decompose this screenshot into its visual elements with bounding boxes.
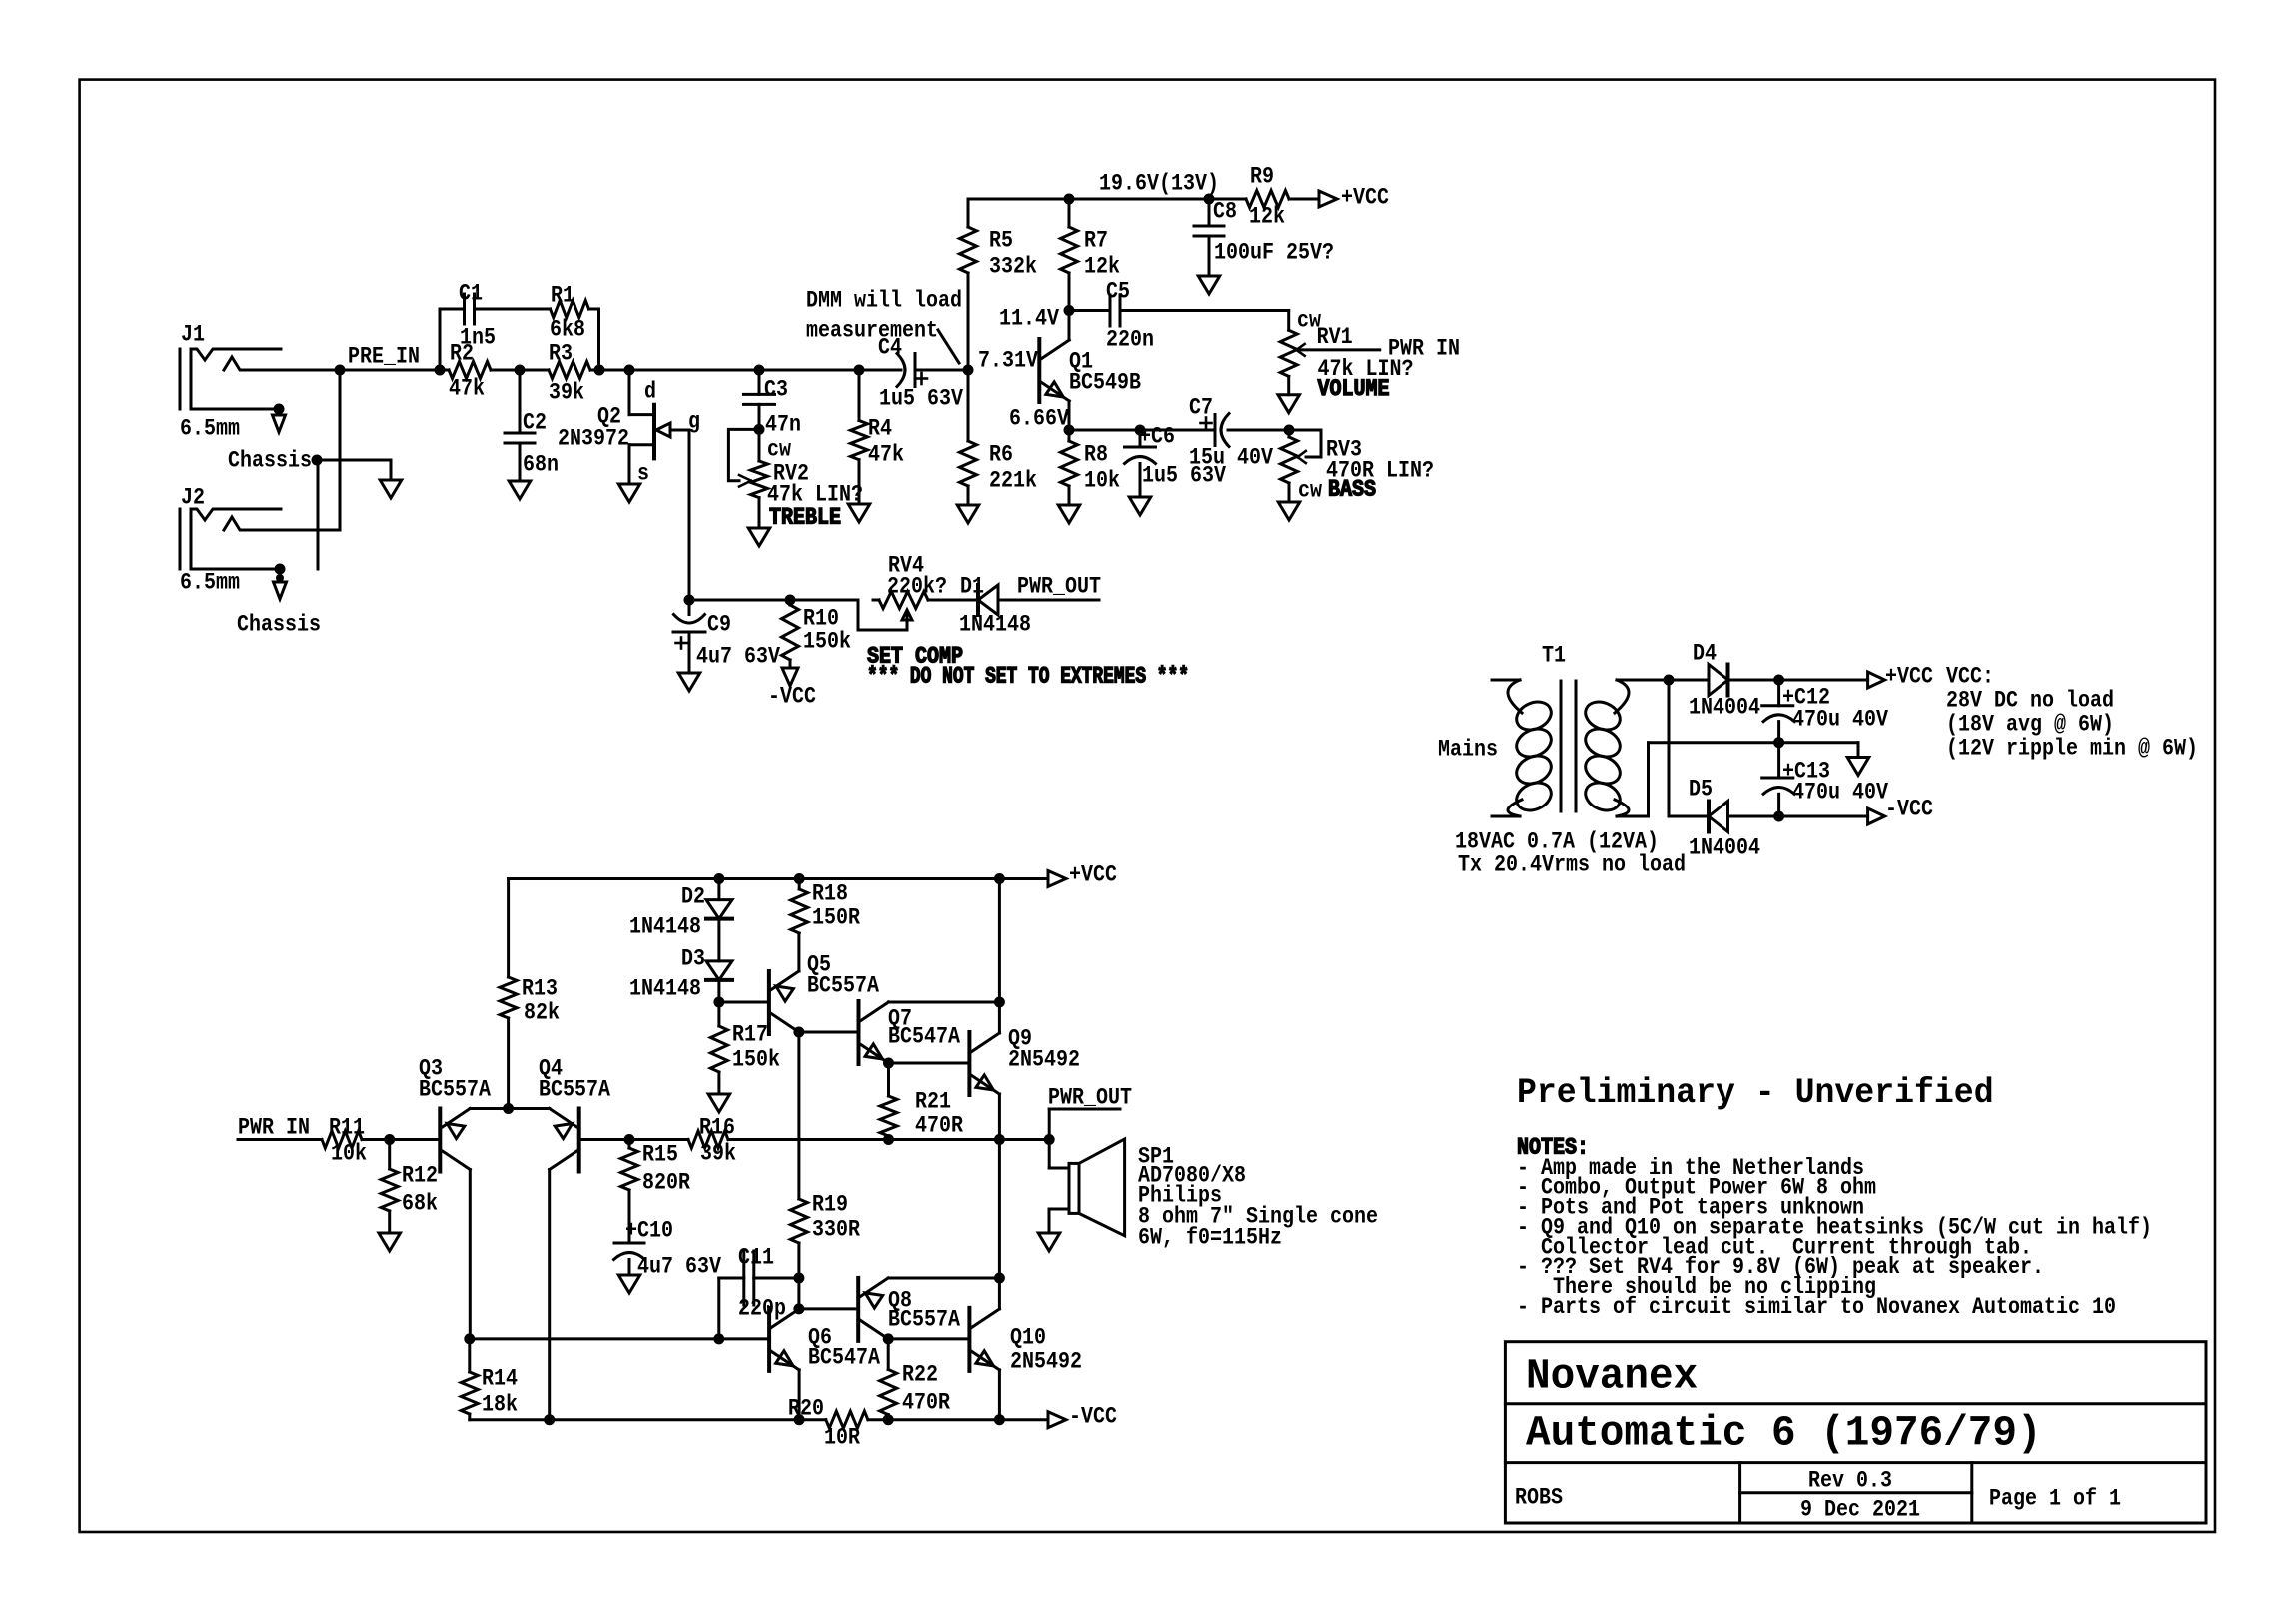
svg-text:100uF 25V?: 100uF 25V? [1214,240,1334,266]
svg-text:10k: 10k [331,1141,367,1167]
svg-text:470u 40V: 470u 40V [1792,707,1888,733]
svg-text:*** DO NOT SET TO EXTREMES ***: *** DO NOT SET TO EXTREMES *** [867,664,1189,690]
svg-text:Chassis: Chassis [237,612,321,638]
svg-text:68n: 68n [523,452,559,478]
svg-text:-VCC: -VCC [1885,797,1933,822]
svg-text:220n: 220n [1106,327,1154,353]
svg-text:68k: 68k [402,1191,438,1217]
svg-text:R8: R8 [1084,442,1108,468]
svg-text:1N4148: 1N4148 [629,914,701,940]
svg-text:D1: D1 [960,574,984,600]
svg-text:-VCC: -VCC [768,684,816,710]
svg-text:220p: 220p [738,1296,786,1322]
svg-text:Page 1 of 1: Page 1 of 1 [1989,1486,2121,1512]
svg-text:C2: C2 [523,410,547,436]
svg-text:Chassis: Chassis [228,448,312,474]
svg-text:DMM will load: DMM will load [806,288,962,314]
svg-text:BC557A: BC557A [539,1077,610,1103]
svg-text:R7: R7 [1084,228,1108,254]
svg-text:150k: 150k [732,1047,780,1073]
svg-text:+VCC: +VCC [1341,185,1389,211]
svg-text:470R: 470R [915,1113,963,1139]
svg-text:Preliminary - Unverified: Preliminary - Unverified [1517,1072,1994,1113]
svg-text:VOLUME: VOLUME [1318,376,1390,402]
svg-text:ROBS: ROBS [1515,1485,1563,1511]
svg-text:R5: R5 [989,228,1013,254]
svg-text:C7: C7 [1189,395,1213,421]
svg-text:D3: D3 [681,946,705,972]
svg-text:R14: R14 [482,1366,518,1392]
svg-text:10k: 10k [1084,468,1120,494]
svg-text:C11: C11 [738,1245,774,1271]
svg-text:+C6: +C6 [1139,424,1175,450]
svg-text:g: g [688,409,700,435]
svg-text:330R: 330R [812,1217,860,1243]
svg-text:R1: R1 [551,283,574,309]
svg-text:2N5492: 2N5492 [1010,1349,1082,1375]
svg-text:C1: C1 [459,281,483,307]
svg-text:R19: R19 [812,1192,848,1218]
svg-text:12k: 12k [1084,254,1120,280]
svg-text:9 Dec 2021: 9 Dec 2021 [1800,1497,1920,1523]
svg-text:(12V ripple min @ 6W): (12V ripple min @ 6W) [1946,736,2198,762]
svg-text:6.66V: 6.66V [1009,406,1069,432]
svg-text:82k: 82k [524,1000,560,1026]
svg-text:1N4148: 1N4148 [629,976,701,1002]
svg-text:18k: 18k [482,1392,518,1418]
svg-text:D5: D5 [1689,777,1713,803]
svg-text:measurement: measurement [806,318,938,344]
svg-text:d: d [644,379,656,405]
svg-text:Rev 0.3: Rev 0.3 [1808,1468,1892,1494]
svg-text:39k: 39k [549,380,584,406]
svg-text:+VCC: +VCC [1885,664,1933,690]
svg-text:Mains: Mains [1438,737,1498,763]
svg-text:T1: T1 [1542,643,1566,669]
svg-text:332k: 332k [989,254,1037,280]
svg-text:BC557A: BC557A [419,1077,491,1103]
svg-text:BASS: BASS [1328,477,1376,503]
svg-text:RV1: RV1 [1317,324,1353,350]
svg-text:R2: R2 [450,341,474,367]
svg-text:+C10: +C10 [625,1218,673,1244]
svg-text:s: s [637,461,649,487]
svg-text:220k?: 220k? [887,574,947,600]
svg-text:VCC:: VCC: [1946,664,1994,690]
svg-text:R13: R13 [522,976,558,1002]
svg-text:J2: J2 [181,485,205,511]
svg-text:R11: R11 [329,1115,365,1141]
svg-text:470u 40V: 470u 40V [1792,780,1888,806]
svg-text:C3: C3 [764,377,788,403]
svg-text:11.4V: 11.4V [999,306,1059,332]
svg-text:7.31V: 7.31V [978,348,1038,374]
svg-text:Novanex: Novanex [1526,1353,1698,1401]
svg-text:BC549B: BC549B [1069,370,1141,396]
svg-text:R18: R18 [812,881,848,907]
svg-text:C9: C9 [707,612,731,638]
svg-text:6W, f0=115Hz: 6W, f0=115Hz [1138,1225,1282,1251]
svg-text:TREBLE: TREBLE [769,505,841,531]
svg-text:470R: 470R [902,1390,950,1416]
svg-text:6.5mm: 6.5mm [180,570,240,596]
svg-text:4u7 63V: 4u7 63V [637,1254,721,1280]
svg-text:6k8: 6k8 [550,317,585,343]
svg-text:cw: cw [1298,478,1322,504]
svg-text:R17: R17 [732,1022,768,1048]
svg-text:- Parts of circuit similar to: - Parts of circuit similar to Novanex Au… [1517,1294,2116,1320]
svg-text:+VCC: +VCC [1069,862,1117,888]
svg-text:R9: R9 [1250,164,1274,190]
svg-text:PWR_OUT: PWR_OUT [1048,1085,1132,1111]
svg-text:1N4148: 1N4148 [959,612,1031,638]
svg-text:1N4004: 1N4004 [1689,835,1760,861]
svg-text:C8: C8 [1213,199,1237,225]
svg-text:1N4004: 1N4004 [1689,695,1760,721]
svg-text:R21: R21 [915,1089,951,1115]
svg-text:PWR IN: PWR IN [238,1115,310,1141]
svg-text:6.5mm: 6.5mm [180,416,240,442]
svg-text:R4: R4 [868,416,892,442]
svg-text:Tx 20.4Vrms no load: Tx 20.4Vrms no load [1458,852,1686,878]
svg-text:47n: 47n [765,412,801,438]
svg-text:39k: 39k [700,1141,736,1167]
svg-text:PWR_OUT: PWR_OUT [1017,574,1101,600]
svg-text:J1: J1 [181,322,205,348]
svg-text:R3: R3 [549,341,573,367]
svg-text:BC547A: BC547A [888,1024,960,1050]
svg-text:R20: R20 [788,1396,824,1422]
svg-text:221k: 221k [989,468,1037,494]
svg-text:15u 40V: 15u 40V [1189,445,1273,471]
svg-text:D2: D2 [681,884,705,910]
svg-text:BC547A: BC547A [808,1345,880,1371]
svg-text:(18V avg @ 6W): (18V avg @ 6W) [1946,712,2114,738]
svg-text:C5: C5 [1106,279,1130,305]
svg-text:47k: 47k [868,442,904,468]
svg-text:PRE_IN: PRE_IN [348,344,420,370]
svg-text:47k: 47k [449,376,485,402]
svg-text:R16: R16 [699,1115,735,1141]
svg-text:D4: D4 [1693,641,1717,667]
svg-text:10R: 10R [824,1425,860,1451]
svg-text:150k: 150k [803,629,851,655]
svg-text:Automatic 6 (1976/79): Automatic 6 (1976/79) [1526,1410,2042,1458]
svg-text:1u5 63V: 1u5 63V [879,386,963,412]
svg-text:2N3972: 2N3972 [558,426,629,452]
svg-text:28V DC no load: 28V DC no load [1946,688,2114,714]
svg-text:cw: cw [767,437,791,463]
svg-text:R6: R6 [989,442,1013,468]
svg-text:BC557A: BC557A [807,973,879,999]
svg-text:R15: R15 [642,1142,678,1168]
svg-text:Q10: Q10 [1010,1325,1046,1351]
svg-text:-VCC: -VCC [1069,1404,1117,1430]
svg-text:R22: R22 [902,1362,938,1388]
svg-text:4u7 63V: 4u7 63V [696,644,780,670]
svg-text:BC557A: BC557A [888,1307,960,1333]
svg-text:820R: 820R [642,1170,690,1196]
svg-text:12k: 12k [1249,204,1285,230]
svg-text:150R: 150R [812,905,860,931]
svg-text:2N5492: 2N5492 [1008,1047,1080,1073]
svg-text:19.6V(13V): 19.6V(13V) [1099,171,1219,197]
svg-text:R12: R12 [402,1163,438,1189]
